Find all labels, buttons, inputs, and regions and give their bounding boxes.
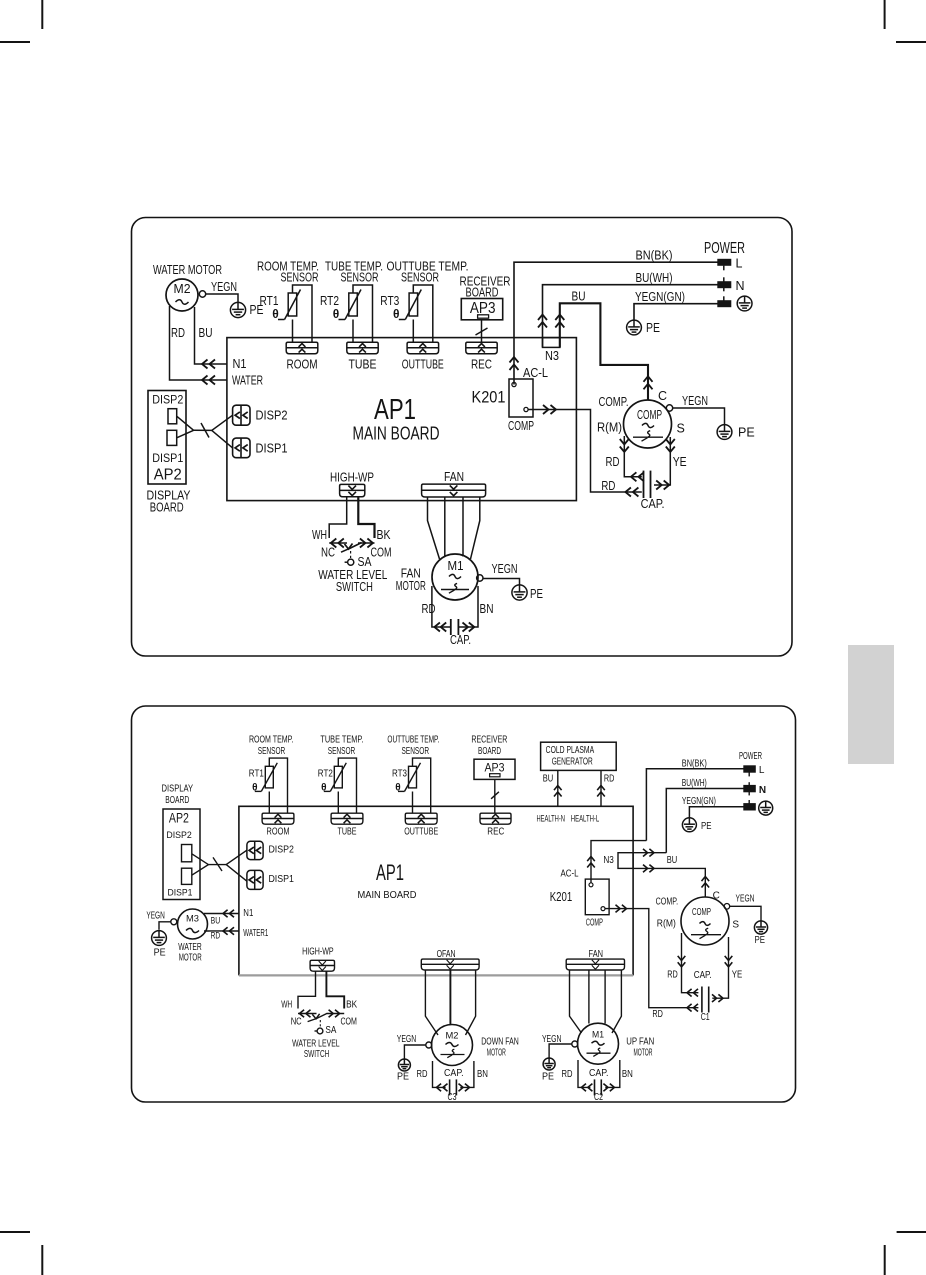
IR element bar in AP3 (bottom)	[490, 774, 500, 777]
float SA (bottom)	[317, 1028, 323, 1034]
wire RT2 sensor loop	[353, 285, 373, 342]
svg-text:WATER: WATER	[178, 942, 202, 953]
receiver board AP3 box (bottom)	[474, 759, 515, 779]
arrows HEALTH-L	[597, 786, 605, 791]
arrows BU upper (bottom)	[649, 849, 654, 857]
svg-text:BK: BK	[346, 1000, 357, 1011]
wire AP2 pins to harness node (top)	[177, 416, 194, 438]
svg-text:DISP1: DISP1	[268, 874, 294, 885]
ground PE under YEGN(GN) (top)	[627, 320, 642, 335]
pin WATER1 arrows (bottom)	[223, 927, 228, 935]
svg-text:DISPLAY: DISPLAY	[162, 784, 194, 795]
wire FAN pin4 (bottom)	[612, 970, 621, 1033]
connector N3 (top)	[543, 338, 560, 348]
svg-text:RT2: RT2	[320, 294, 339, 308]
wire OFAN pin2 (bottom)	[449, 970, 451, 1025]
motor M2 (water motor)	[166, 279, 198, 311]
svg-text:HIGH-WP: HIGH-WP	[330, 471, 374, 485]
wire S to capacitor (top)	[654, 437, 670, 485]
wire RD M1 to C2	[578, 1060, 590, 1087]
wire BU lower branch to compressor C (bottom)	[633, 868, 705, 897]
thermistor RT3 (bottom)	[409, 766, 417, 788]
harness node to DISP connectors (top)	[212, 415, 233, 448]
svg-text:BU: BU	[667, 855, 678, 866]
cold plasma generator box	[541, 742, 617, 770]
svg-text:BN(BK): BN(BK)	[636, 249, 673, 263]
label BU (M3)	[210, 916, 223, 925]
svg-text:RT1: RT1	[260, 294, 279, 308]
wire RT1 to connector (bottom)	[268, 792, 270, 814]
wire BU upper branch (bottom)	[633, 852, 666, 854]
svg-text:PE: PE	[542, 1071, 554, 1082]
wire BU from M2 to N1 pin	[195, 307, 227, 364]
svg-text:M1: M1	[448, 559, 464, 573]
svg-text:BU: BU	[199, 326, 213, 340]
svg-text:θ: θ	[393, 307, 400, 321]
svg-text:PE: PE	[154, 947, 166, 958]
arrows HEALTH-N	[554, 786, 562, 791]
svg-text:R(M): R(M)	[597, 421, 622, 435]
svg-text:M1: M1	[592, 1029, 604, 1040]
svg-text:YEGN: YEGN	[146, 910, 165, 921]
svg-text:OUTTUBE: OUTTUBE	[404, 826, 438, 837]
svg-text:TUBE: TUBE	[338, 826, 357, 837]
svg-text:COM: COM	[340, 1016, 357, 1027]
AP2 pin DISP1 (bottom)	[182, 868, 192, 884]
svg-text:RD: RD	[171, 326, 185, 340]
crop mark bottom-left	[0, 1231, 30, 1233]
connector REC (top board)	[466, 342, 497, 354]
terminal GN (top)	[718, 301, 731, 307]
wire AP2 pins to harness node (bottom)	[192, 854, 209, 875]
svg-text:COMP: COMP	[692, 907, 711, 918]
gray sidebar block	[848, 645, 894, 764]
svg-text:AC-L: AC-L	[523, 366, 548, 380]
svg-text:HEALTH-L: HEALTH-L	[571, 813, 600, 823]
svg-text:PE: PE	[646, 321, 660, 335]
svg-text:BOARD: BOARD	[466, 286, 499, 300]
arrows AC-L (bottom)	[587, 857, 595, 862]
connector N3 box (bottom)	[618, 853, 633, 869]
terminal on compressor (top)	[666, 405, 672, 411]
svg-text:N3: N3	[545, 349, 559, 363]
connector HIGH-WP (bottom board)	[310, 960, 334, 971]
svg-text:R(M): R(M)	[657, 919, 676, 930]
bottom diagram border	[132, 706, 796, 1102]
svg-text:CAP.: CAP.	[444, 1068, 464, 1079]
arrows BU lower (bottom)	[649, 865, 654, 873]
svg-text:RT3: RT3	[392, 768, 407, 779]
svg-text:N: N	[759, 785, 766, 796]
wire RT3 to connector (bottom)	[412, 792, 414, 814]
svg-text:M2: M2	[446, 1031, 459, 1042]
svg-text:θ: θ	[272, 307, 279, 321]
svg-text:YEGN: YEGN	[736, 894, 755, 905]
wire RT1 sensor to connector	[292, 320, 294, 343]
svg-text:BOARD: BOARD	[165, 795, 189, 806]
water level switch (top)	[329, 542, 347, 544]
svg-text:BU(WH): BU(WH)	[682, 778, 707, 789]
relay K201 box (top)	[509, 379, 533, 417]
svg-text:CAP.: CAP.	[694, 970, 712, 981]
svg-text:RD: RD	[562, 1069, 573, 1080]
relay pin (top, COMP)	[524, 407, 528, 411]
wire RT1 sensor loop	[293, 285, 313, 342]
svg-text:C1: C1	[701, 1012, 710, 1023]
wire YEGN compressor to PE (bottom)	[730, 906, 761, 921]
svg-text:SENSOR: SENSOR	[341, 271, 379, 285]
pin arrows on BU(WH) branch (top)	[538, 315, 547, 321]
arrows into C1 left upper (bottom)	[687, 989, 692, 997]
connector FAN (top board)	[422, 484, 486, 497]
wire YEGN M2 to PE (bottom)	[404, 1045, 425, 1060]
svg-text:DISP2: DISP2	[268, 845, 294, 856]
label RD (M3)	[210, 932, 223, 940]
main board bottom edge (bottom, gray)	[239, 974, 633, 976]
svg-text:PE: PE	[738, 426, 755, 440]
wire BU from generator to board	[557, 770, 559, 806]
svg-text:MOTOR: MOTOR	[634, 1048, 653, 1059]
wire FAN pin1 (bottom)	[570, 970, 582, 1033]
svg-text:POWER: POWER	[704, 240, 745, 257]
terminal on compressor (bottom)	[724, 904, 730, 910]
IR element bar in AP3	[478, 315, 489, 318]
arrows on S wire (bottom)	[725, 956, 733, 961]
main board AP1 outline (top)	[227, 338, 577, 501]
wire BN M1 to capacitor (top)	[459, 586, 479, 627]
top diagram border	[132, 218, 793, 657]
wire RT2 loop (bottom)	[338, 758, 356, 813]
tick on display harness (top)	[201, 423, 209, 438]
svg-text:BN: BN	[477, 1069, 488, 1080]
relay pin (top, AC-L)	[512, 382, 516, 386]
svg-text:YE: YE	[732, 970, 743, 981]
connector DISP2 (bottom board)	[247, 841, 263, 859]
wire RT2 sensor to connector	[352, 320, 354, 343]
wire BU(WH) N line	[543, 285, 718, 348]
svg-text:COMP: COMP	[508, 419, 534, 433]
wire BN down to K201 (bottom)	[591, 841, 646, 883]
crop mark bottom-right	[897, 1231, 926, 1233]
svg-text:SENSOR: SENSOR	[258, 746, 286, 757]
arrows RD into capacitor (top)	[625, 488, 631, 497]
svg-text:YEGN: YEGN	[542, 1034, 562, 1045]
svg-text:AP2: AP2	[169, 811, 189, 826]
wire R(M) to capacitor (top)	[624, 436, 642, 477]
svg-text:RD: RD	[422, 602, 436, 616]
connector TUBE (top board)	[347, 342, 378, 354]
tick on AP3 wire	[476, 328, 488, 335]
svg-text:DISP2: DISP2	[166, 830, 192, 841]
wire RT2 to connector (bottom)	[337, 792, 339, 814]
svg-text:AC-L: AC-L	[561, 869, 579, 880]
wire BU M3 to N1 (bottom)	[204, 913, 239, 915]
svg-text:GENERATOR: GENERATOR	[552, 756, 593, 767]
svg-text:REC: REC	[487, 826, 504, 837]
crop mark top-right	[884, 0, 886, 29]
wire FAN pin2 (top)	[444, 497, 446, 557]
wire YEGN compressor to PE (top)	[673, 408, 725, 425]
svg-text:HIGH-WP: HIGH-WP	[302, 947, 334, 958]
wire RD M1 to capacitor (top)	[432, 586, 451, 627]
svg-text:C2: C2	[594, 1092, 603, 1103]
relay K201 box (bottom)	[585, 879, 609, 915]
wire S to C1 (bottom)	[712, 937, 728, 998]
svg-text:N: N	[736, 279, 745, 293]
svg-text:MAIN BOARD: MAIN BOARD	[358, 889, 417, 901]
terminal on M1 (bottom)	[572, 1041, 578, 1047]
svg-text:RT2: RT2	[318, 768, 333, 779]
terminal on M2 (bottom)	[426, 1042, 432, 1048]
svg-text:PE: PE	[530, 587, 543, 601]
wire K201 COMP to capacitor (top)	[528, 410, 642, 493]
connector ROOM (top board)	[286, 342, 318, 354]
svg-text:YEGN: YEGN	[397, 1034, 417, 1045]
main board AP1 outline (bottom)	[239, 806, 633, 975]
ground PE (water motor)	[230, 302, 245, 317]
connector ROOM (bottom board)	[262, 813, 294, 824]
svg-text:C3: C3	[448, 1092, 457, 1103]
thermistor RT3	[409, 293, 418, 316]
thermistor RT1 (bottom)	[265, 766, 273, 788]
svg-text:YEGN(GN): YEGN(GN)	[682, 796, 716, 807]
wire HIGH-WP left to switch (top)	[329, 497, 347, 538]
svg-text:BU: BU	[543, 774, 554, 785]
wire BU to compressor C (top)	[560, 303, 648, 400]
svg-text:N3: N3	[603, 855, 614, 866]
connector DISP1 (top board)	[233, 438, 250, 458]
svg-text:COMP.: COMP.	[599, 395, 629, 409]
connector OFAN (bottom board)	[421, 959, 479, 970]
terminal on M2	[199, 291, 205, 297]
svg-text:AP3: AP3	[485, 761, 505, 775]
svg-text:PE: PE	[701, 821, 712, 832]
arrows on K201 COMP wire (bottom)	[622, 905, 627, 913]
display board AP2 box (bottom)	[163, 809, 200, 900]
AP2 pin DISP1 (top)	[167, 430, 177, 445]
arrows into capacitor left (top)	[631, 472, 637, 481]
svg-text:RD: RD	[652, 1009, 663, 1020]
svg-text:PE: PE	[397, 1071, 409, 1082]
thermistor RT2 (bottom)	[334, 766, 342, 788]
crop mark top-left	[41, 0, 43, 29]
wire YEGN(GN) ground line	[634, 304, 718, 320]
arrows on R(M) wire (top)	[620, 439, 629, 445]
display board AP2 box (top)	[148, 391, 186, 485]
svg-text:S: S	[732, 919, 739, 930]
capacitor C1	[701, 987, 703, 1013]
svg-text:COMP: COMP	[586, 917, 603, 928]
wire BN(BK) L line (bottom)	[646, 769, 743, 841]
svg-text:CAP.: CAP.	[589, 1068, 609, 1079]
svg-text:M3: M3	[186, 914, 199, 925]
svg-text:YEGN(GN): YEGN(GN)	[635, 290, 685, 304]
svg-text:ROOM: ROOM	[287, 358, 318, 372]
arrows out of C1 right (bottom)	[718, 994, 723, 1002]
svg-text:SWITCH: SWITCH	[336, 580, 373, 594]
capacitor CAP (top fan)	[450, 619, 452, 635]
pin arrows AC-L (top)	[510, 357, 519, 363]
wire BN M2 to C3	[460, 1061, 474, 1087]
fan motor M1 (bottom)	[578, 1023, 619, 1064]
fan motor M2 (bottom)	[432, 1025, 473, 1066]
terminal GN (bottom)	[744, 804, 756, 810]
AP2 pin DISP2 (top)	[168, 409, 177, 424]
svg-text:UP FAN: UP FAN	[626, 1036, 654, 1047]
svg-text:DOWN FAN: DOWN FAN	[481, 1036, 519, 1047]
AP2 pin DISP2 (bottom)	[182, 845, 192, 862]
svg-text:θ: θ	[395, 783, 400, 794]
svg-text:WH: WH	[281, 1000, 292, 1011]
svg-text:COMP: COMP	[637, 408, 662, 422]
svg-text:L: L	[759, 765, 765, 776]
svg-text:WATER: WATER	[232, 374, 263, 388]
svg-text:RT1: RT1	[249, 768, 264, 779]
svg-text:MOTOR: MOTOR	[487, 1048, 506, 1059]
svg-text:DISP1: DISP1	[152, 451, 183, 465]
terminal N (top)	[718, 282, 731, 288]
wire RT3 sensor to connector	[412, 320, 414, 343]
arrows on K201 COMP wire (top)	[551, 405, 557, 414]
svg-text:RD: RD	[606, 455, 620, 469]
wire YEGN M3 to PE (bottom)	[159, 922, 171, 930]
dashed float link (top)	[350, 551, 352, 558]
svg-text:WH: WH	[312, 528, 327, 542]
wire K201 COMP out (bottom)	[605, 909, 698, 1008]
fan motor M1 (top)	[432, 554, 478, 600]
svg-text:POWER: POWER	[739, 750, 762, 762]
wire FAN pin3 (bottom)	[604, 970, 606, 1024]
terminal L (top)	[718, 259, 731, 265]
svg-text:C: C	[658, 389, 667, 403]
svg-text:AP1: AP1	[376, 860, 404, 885]
connector REC (bottom board)	[480, 813, 511, 824]
svg-text:N1: N1	[233, 357, 247, 371]
svg-text:YEGN: YEGN	[211, 280, 237, 294]
svg-text:COM: COM	[371, 546, 392, 560]
svg-text:M2: M2	[174, 282, 191, 296]
svg-text:S: S	[677, 422, 685, 436]
svg-text:TUBE TEMP.: TUBE TEMP.	[320, 735, 363, 746]
wire FAN pin2 (bottom)	[588, 970, 590, 1024]
wire YEGN from M2 to PE	[206, 294, 238, 302]
svg-text:CAP.: CAP.	[641, 497, 665, 511]
svg-text:SENSOR: SENSOR	[401, 271, 439, 285]
svg-text:ROOM: ROOM	[267, 826, 290, 837]
svg-text:COLD PLASMA: COLD PLASMA	[546, 745, 595, 756]
wire BU(WH) N line (bottom)	[666, 789, 744, 853]
arrows into C1 left lower (bottom)	[687, 1004, 692, 1012]
tick on display harness (bottom)	[213, 857, 222, 871]
capacitor C2	[594, 1079, 596, 1095]
wire YEGN M1 to PE (bottom)	[549, 1044, 572, 1059]
wire AP3 to REC connector	[481, 320, 483, 343]
svg-text:BOARD: BOARD	[150, 501, 184, 515]
terminal L (bottom)	[744, 766, 756, 772]
wire FAN pin4 (top)	[471, 497, 480, 559]
terminal on M1 (top)	[477, 575, 483, 581]
svg-text:MOTOR: MOTOR	[396, 579, 426, 593]
dashed link between terminals (bottom)	[748, 772, 750, 776]
arrows on R(M) wire (bottom)	[678, 956, 686, 961]
wire FAN pin1 (top)	[428, 497, 440, 559]
compressor COMP motor (bottom)	[681, 897, 729, 945]
wire YEGN M1 to PE (top)	[483, 579, 520, 586]
connector TUBE (bottom board)	[331, 813, 363, 824]
relay pin AC-L (bottom)	[589, 883, 593, 887]
svg-text:C: C	[713, 890, 720, 901]
arrows out of capacitor right (top)	[664, 481, 670, 490]
svg-text:WATER1: WATER1	[243, 928, 268, 939]
relay pin COMP (bottom)	[601, 907, 605, 911]
arrows on C wire (bottom)	[702, 877, 710, 882]
connector DISP2 (top board)	[233, 405, 250, 425]
connector OUTTUBE (top board)	[407, 342, 439, 354]
wire RT3 loop (bottom)	[413, 758, 431, 813]
svg-text:HEALTH-N: HEALTH-N	[536, 813, 565, 823]
motor M3 (water motor, bottom)	[178, 909, 208, 939]
svg-text:YE: YE	[673, 455, 687, 469]
svg-text:BOARD: BOARD	[478, 746, 501, 757]
svg-text:θ: θ	[321, 783, 326, 794]
svg-text:FAN: FAN	[589, 949, 604, 960]
svg-text:RD: RD	[604, 774, 615, 785]
svg-text:N1: N1	[243, 908, 253, 919]
svg-text:YEGN: YEGN	[492, 562, 518, 576]
svg-text:TUBE: TUBE	[349, 358, 377, 372]
svg-text:ROOM TEMP.: ROOM TEMP.	[249, 735, 294, 746]
wire RD from M2 to WATER pin	[170, 306, 227, 380]
wire YEGN(GN) line (bottom)	[689, 807, 743, 818]
harness bus (top)	[194, 429, 212, 431]
svg-text:BU: BU	[572, 290, 586, 304]
thermistor RT1	[288, 293, 297, 316]
wire RT1 loop (bottom)	[269, 758, 287, 813]
tick on AP3 wire (bottom)	[491, 792, 499, 799]
ground PE (M2 bottom)	[398, 1059, 410, 1071]
float SA (top)	[348, 559, 354, 565]
pin N1 arrows (bottom)	[223, 910, 228, 918]
dashed link between terminals (top)	[723, 266, 725, 271]
svg-text:OUTTUBE TEMP.: OUTTUBE TEMP.	[387, 735, 439, 746]
wire OFAN pin1 (bottom)	[425, 970, 438, 1035]
svg-text:RD: RD	[601, 479, 615, 493]
wire BN M1 to C2	[605, 1060, 620, 1087]
svg-text:SENSOR: SENSOR	[281, 271, 319, 285]
svg-text:θ: θ	[333, 307, 340, 321]
connector HIGH-WP (top board)	[340, 484, 365, 496]
connector OUTTUBE (bottom board)	[405, 813, 437, 824]
svg-text:NC: NC	[321, 546, 335, 560]
svg-text:SWITCH: SWITCH	[304, 1049, 330, 1060]
svg-text:COMP.: COMP.	[656, 897, 679, 908]
svg-text:BN: BN	[480, 602, 494, 616]
svg-text:RD: RD	[211, 931, 221, 941]
svg-text:SENSOR: SENSOR	[402, 746, 430, 757]
wire HIGH-WP left to switch (bottom)	[298, 971, 316, 1008]
svg-text:REC: REC	[471, 358, 492, 372]
wire RD M3 to WATER1 (bottom)	[204, 930, 239, 932]
svg-text:DISP1: DISP1	[256, 442, 288, 456]
svg-text:SENSOR: SENSOR	[328, 746, 356, 757]
svg-text:DISP1: DISP1	[168, 888, 193, 899]
svg-text:OUTTUBE: OUTTUBE	[402, 358, 444, 372]
svg-text:BU(WH): BU(WH)	[636, 271, 673, 285]
svg-text:CAP.: CAP.	[450, 633, 471, 647]
compressor COMP motor (top)	[624, 400, 672, 448]
ground symbol at power block (top)	[737, 296, 752, 311]
connector FAN (bottom board)	[566, 959, 624, 970]
